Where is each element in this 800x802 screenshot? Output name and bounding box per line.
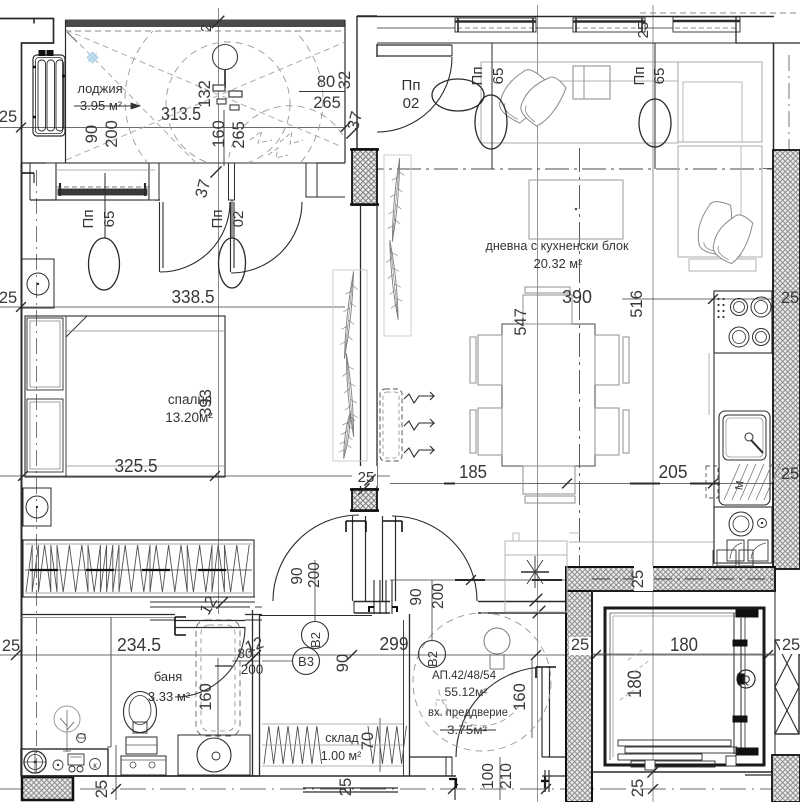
dining chair right 1 — [595, 335, 619, 385]
loggia perspective dashed fan lines — [66, 30, 196, 163]
window callout Pp02 living-loggia door — [432, 79, 484, 111]
construction X mark near kitchen — [521, 571, 549, 573]
svg-text:дневна с кухненски блок: дневна с кухненски блок — [486, 238, 629, 253]
svg-text:516: 516 — [628, 290, 646, 318]
toilet paper holder — [77, 734, 86, 743]
window frame loggia-bedroom Pp65 — [56, 163, 149, 200]
dining chair left 2 — [478, 408, 502, 455]
wash basin round — [197, 738, 231, 772]
node wall centerline right dash-dot — [788, 55, 790, 160]
svg-text:325.5: 325.5 — [115, 456, 158, 476]
bed pillow 1 — [27, 318, 63, 390]
svg-text:3.33 м²: 3.33 м² — [148, 689, 191, 704]
loggia corner chamfer mark — [67, 32, 77, 42]
svg-text:132: 132 — [196, 80, 214, 108]
sofa main seat — [481, 62, 678, 143]
svg-text:Q: Q — [742, 674, 751, 686]
bath partition wall line — [110, 617, 112, 747]
blue revision marker — [87, 52, 98, 63]
svg-text:25: 25 — [93, 780, 111, 798]
sofa chaise — [678, 146, 762, 257]
svg-text:к: к — [93, 761, 97, 770]
svg-text:вх. преддверие: вх. преддверие — [428, 706, 508, 719]
wire dimension row y483 living — [390, 483, 800, 485]
door living-loggia swing arc — [377, 57, 452, 132]
toilet — [124, 692, 157, 733]
svg-text:90: 90 — [83, 125, 101, 143]
svg-text:В3: В3 — [298, 654, 314, 669]
svg-text:25: 25 — [2, 637, 20, 655]
door loggia-bedroom leaf 1 — [159, 202, 161, 272]
wall pier right of window — [149, 163, 159, 200]
plant tall left of wall — [333, 270, 367, 461]
sofa pillows curved chaise — [695, 199, 736, 256]
wall bedroom/loggia band y163-200 segments — [30, 199, 56, 201]
bed blanket — [65, 316, 67, 477]
window frame top 3 — [673, 17, 740, 32]
svg-text:25: 25 — [629, 779, 647, 797]
svg-text:205: 205 — [659, 462, 688, 482]
svg-text:80: 80 — [237, 646, 252, 661]
svg-text:25: 25 — [629, 570, 647, 588]
svg-text:Пп: Пп — [631, 67, 648, 86]
node axis grid line x538 — [537, 5, 539, 802]
node elevator shaft inner opening — [592, 590, 775, 592]
door bath swing arc — [175, 627, 245, 697]
svg-text:Пп: Пп — [80, 210, 97, 229]
coffee table — [529, 180, 623, 239]
svg-text:65: 65 — [101, 211, 118, 228]
wall hatch right exterior — [773, 150, 800, 569]
svg-text:210: 210 — [498, 763, 515, 789]
window callout Pp65 bedroom — [104, 173, 106, 238]
door tag B2 right — [431, 580, 433, 640]
door entry swing arc — [456, 667, 546, 757]
svg-text:25: 25 — [571, 636, 589, 654]
svg-text:25: 25 — [337, 778, 355, 796]
wash basin counter — [178, 735, 250, 775]
svg-text:90: 90 — [289, 567, 306, 585]
wall left exterior x21 — [21, 163, 23, 776]
wall hatch bottom right corner — [772, 755, 800, 802]
column X-brace right — [775, 640, 799, 734]
wire dimension row y299 kitchen — [622, 298, 800, 300]
svg-text:3.95 м²: 3.95 м² — [80, 98, 123, 113]
toilet cistern cabinet — [121, 756, 166, 775]
bottom outside wall fragments — [303, 787, 398, 789]
svg-text:25: 25 — [781, 289, 799, 307]
sofa pillows curved top — [494, 64, 550, 126]
plant tall right of wall — [384, 155, 411, 336]
wall living/hall y601-613 — [478, 601, 566, 603]
door loggia-bedroom swing arc 2 — [231, 202, 302, 273]
svg-text:200: 200 — [306, 562, 323, 588]
elevator door mechanism right — [733, 613, 735, 754]
elevator sliding door panels bottom — [618, 740, 731, 746]
svg-text:200: 200 — [430, 583, 447, 609]
node elevator centerline horizontal — [566, 653, 800, 655]
svg-text:02: 02 — [230, 211, 247, 228]
bathtub dashed — [196, 620, 240, 736]
dining chair top — [523, 295, 572, 324]
kitchen counter edge — [713, 291, 715, 563]
wall loggia left edge — [65, 20, 67, 163]
wire dimension stem entry 100/210 — [499, 757, 501, 800]
wire dimension row y127 loggia — [0, 127, 345, 129]
stove 4 burners — [714, 291, 772, 353]
door entry leaf — [541, 667, 543, 757]
svg-text:Пп: Пп — [469, 67, 486, 86]
svg-text:160: 160 — [511, 683, 529, 711]
svg-text:234.5: 234.5 — [117, 635, 161, 655]
label dim 25 elevator top rotated — [634, 566, 653, 591]
window callout Pp65 living left — [491, 43, 493, 169]
bed pillow 2 — [27, 399, 63, 472]
svg-text:02: 02 — [403, 95, 420, 112]
svg-text:265: 265 — [230, 121, 248, 149]
dishwasher dashed — [706, 466, 718, 498]
window callout Pp65 living right — [654, 43, 656, 169]
wall bath top y614-620 — [21, 614, 175, 616]
label wall 25 between hatches — [352, 466, 377, 486]
dining chair left 1 — [478, 335, 502, 385]
label dim 25 elevator right — [780, 637, 800, 654]
nightstand top with lamp — [22, 259, 54, 308]
wall hatch block bedroom/living lower — [352, 489, 377, 511]
wire dimension stem entry 160 — [531, 660, 533, 738]
bed double — [25, 316, 225, 477]
wall black hatch block bottom-left — [22, 777, 73, 800]
svg-text:90: 90 — [408, 588, 425, 606]
hall keyhole symbol — [484, 628, 510, 654]
svg-text:180: 180 — [670, 635, 698, 656]
node section line horizontal dash-dot — [360, 168, 800, 170]
wall top right corner — [735, 17, 737, 43]
wall bottom bath y776 — [21, 775, 259, 777]
loggia break zigzag dashed — [250, 131, 303, 144]
svg-text:25: 25 — [0, 108, 17, 126]
door loggia dashed swing arcs — [125, 1, 351, 199]
svg-text:160: 160 — [197, 683, 215, 711]
svg-text:70: 70 — [359, 732, 377, 750]
door bedroom leaf (from hall) — [352, 516, 354, 601]
svg-text:299: 299 — [380, 634, 409, 654]
radiator loggia — [33, 55, 65, 136]
wall bottom sklad/entry y757-776 — [259, 775, 456, 777]
svg-text:160: 160 — [210, 120, 228, 148]
wall hatch block living west upper — [352, 149, 377, 205]
wire dimension tick right y168 — [763, 168, 800, 170]
svg-text:65: 65 — [651, 68, 668, 85]
svg-text:547: 547 — [512, 308, 530, 336]
dining chair bottom — [523, 466, 575, 494]
svg-text:1.00 м²: 1.00 м² — [321, 749, 362, 763]
dining chair right 2 — [595, 408, 619, 455]
svg-text:В2: В2 — [308, 632, 323, 648]
svg-text:спалня: спалня — [168, 392, 212, 407]
svg-text:13.20м²: 13.20м² — [165, 410, 213, 425]
svg-text:185: 185 — [459, 462, 487, 482]
svg-text:20.32 м²: 20.32 м² — [534, 256, 583, 271]
window frame top 1 — [455, 18, 536, 32]
wall stub between doors — [354, 601, 390, 603]
wire dimension row y789 bottom — [0, 788, 800, 790]
wire dimension row y307 bedroom top — [0, 306, 345, 308]
door living-loggia leaf (horizontal) — [377, 44, 452, 46]
svg-text:265: 265 — [313, 94, 341, 112]
bath plant circle with stem — [54, 706, 80, 732]
svg-text:склад: склад — [325, 731, 359, 745]
svg-text:Пп: Пп — [402, 77, 421, 94]
svg-text:90: 90 — [334, 654, 352, 672]
door bath leaf — [175, 620, 245, 622]
svg-text:25: 25 — [782, 636, 800, 654]
wall bath/sklad x252-260 — [252, 610, 254, 776]
door sklad posts — [374, 580, 380, 614]
svg-text:200: 200 — [241, 662, 264, 677]
wire dimension row y580 hall — [390, 579, 576, 581]
svg-text:80: 80 — [317, 73, 335, 91]
svg-text:3.75м²: 3.75м² — [447, 724, 487, 737]
hall dashed box marks — [436, 700, 446, 714]
door tag B3 — [293, 648, 320, 675]
kitchen sink unit — [719, 411, 770, 505]
node elevator top band centerline — [592, 578, 775, 580]
svg-text:25: 25 — [635, 22, 652, 39]
kitchen bottom cabinets light — [569, 541, 713, 543]
wall loggia floor bottom edge — [30, 162, 345, 164]
ceiling lamp symbol loggia — [213, 45, 238, 70]
door tag B2 left — [314, 560, 316, 622]
svg-text:25: 25 — [0, 289, 17, 307]
window callout Pp02 bedroom loggia door — [231, 200, 233, 238]
wire dimension vertical x116 bottom — [115, 745, 117, 800]
wall bedroom south y597-607 — [21, 596, 255, 598]
hall turning circle dashed — [413, 613, 551, 751]
door loggia-bedroom leaf 2 — [230, 202, 232, 272]
svg-text:25: 25 — [781, 465, 799, 483]
svg-text:баня: баня — [154, 669, 183, 684]
dining table — [502, 324, 595, 466]
wire dimension row y655 full width — [0, 654, 800, 656]
sklad hanging rail zigzag left — [264, 726, 322, 764]
label dim 25 elevator left — [569, 637, 591, 655]
wall pier right of doors — [306, 163, 317, 197]
small window above elevator — [717, 550, 736, 566]
elevator shaft square — [605, 608, 764, 765]
sink drainboard hatch — [724, 464, 740, 500]
sofa chaise base — [689, 259, 756, 271]
wall loggia right edge — [344, 20, 346, 163]
kitchen washing machine — [714, 507, 772, 563]
wall mullion between french doors — [229, 163, 235, 200]
wall bedroom/living x360-377 — [360, 205, 362, 489]
svg-text:313.5: 313.5 — [161, 104, 201, 124]
desk window under loggia (bedroom north) — [56, 169, 155, 171]
door bedroom swing arc — [273, 515, 359, 601]
wall bottom right of entry door — [542, 756, 566, 758]
wall sklad outline — [259, 615, 372, 617]
wall living top y16-43 with windows — [357, 16, 774, 18]
svg-text:65: 65 — [490, 68, 507, 85]
door hall-living swing arc — [392, 516, 477, 601]
radiator living (dashed) with heat arrows — [380, 389, 402, 461]
door loggia-bedroom swing arc 1 — [160, 202, 230, 272]
wall top-left outer corner with pier step — [0, 19, 54, 174]
door hall-living leaf — [382, 516, 384, 601]
label dim 2 tick mid — [364, 474, 375, 485]
nightstand bottom with lamp — [23, 488, 51, 526]
svg-text:390: 390 — [562, 287, 592, 307]
washing machine row bottom-left — [21, 749, 108, 776]
wall loggia top (slab edge) — [65, 20, 345, 27]
svg-text:лоджия: лоджия — [77, 81, 122, 96]
wire dimension stem bath 160 — [217, 658, 219, 738]
sklad hanging rail zigzag right — [368, 726, 406, 764]
wardrobe with hanging clothes — [23, 540, 254, 597]
svg-text:2: 2 — [198, 24, 215, 32]
svg-text:Пп: Пп — [209, 210, 226, 229]
svg-text:338.5: 338.5 — [172, 287, 215, 307]
node axis-2 vertical grid line — [218, 8, 220, 614]
node section line vertical dash-dot — [579, 148, 581, 798]
wall living east x773 — [773, 43, 775, 150]
svg-text:32: 32 — [336, 71, 354, 89]
wall hatch elevator left band — [566, 591, 592, 802]
svg-text:АП.42/48/54: АП.42/48/54 — [432, 669, 497, 682]
wire dimension stem sklad 70 — [379, 718, 381, 772]
svg-text:100: 100 — [480, 763, 497, 789]
svg-text:200: 200 — [103, 120, 121, 148]
svg-text:55.12м²: 55.12м² — [445, 686, 488, 699]
node wall centerline left dash-dot — [36, 170, 38, 772]
window frame top 2 — [573, 18, 645, 32]
node axis grid line x653 — [652, 5, 654, 802]
sofa cushion rect — [573, 66, 610, 99]
label axis tick 2 top — [212, 16, 225, 29]
wall hatch elevator top band — [566, 567, 775, 591]
wall living west x357-377 top piece — [356, 16, 358, 205]
svg-text:В2: В2 — [425, 651, 440, 667]
wire dimension row y476 bedroom bottom — [0, 475, 390, 477]
sofa corner section — [678, 62, 762, 142]
